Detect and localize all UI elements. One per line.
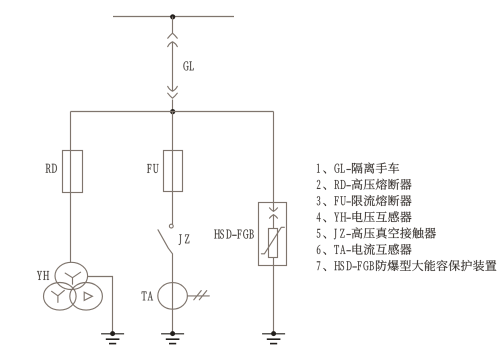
label HSD-FGB — [214, 229, 253, 238]
wire: plug to varistor — [273, 215, 275, 229]
GL upper isolating plug contact (chevron) — [168, 33, 178, 38]
label GL — [183, 61, 193, 70]
wire: GL lower contact to bus node — [172, 100, 174, 112]
voltage transformer YH winding 2 (lower-left circle, wye) — [44, 283, 77, 311]
contactor JZ fixed contact (small circle) — [169, 224, 173, 228]
voltage transformer YH winding 3 (lower-right circle, delta) — [70, 283, 103, 311]
legend line 3 — [317, 195, 412, 206]
contactor JZ moving blade — [158, 230, 173, 254]
fuse FU (rectangle) — [164, 151, 183, 192]
current transformer TA (circle) — [158, 283, 188, 310]
legend line 1 — [317, 163, 399, 174]
wire: middle branch through FU to contactor — [172, 112, 174, 224]
ground: HSD-FGB earth — [262, 331, 285, 344]
ground: YH secondary earth — [101, 331, 124, 344]
wire: YH secondary tap to earth — [88, 277, 113, 334]
wire: incoming busbar — [113, 16, 234, 18]
GL truck stem wire — [172, 42, 174, 91]
ground: TA branch earth — [161, 331, 184, 344]
legend line 7 — [317, 260, 497, 271]
wire: busbar to GL truck upper contact — [172, 17, 174, 34]
legend line 4 — [317, 211, 412, 222]
varistor diagonal stroke — [261, 227, 284, 254]
label YH — [37, 271, 49, 280]
legend line 5 — [317, 227, 436, 239]
voltage transformer YH winding 1 (top circle, wye) — [55, 262, 88, 289]
label JZ — [179, 234, 190, 244]
wire: horizontal distribution bus — [71, 111, 274, 113]
wire: right branch to HSD-FGB — [273, 112, 275, 212]
label RD — [46, 164, 57, 173]
varistor element (rectangle) — [269, 229, 278, 258]
HSD-FGB plug contact (down arrow) — [270, 208, 278, 212]
fuse RD (rectangle) — [63, 151, 83, 193]
label TA — [142, 291, 153, 300]
wire: left branch down to YH — [70, 112, 72, 263]
wire: varistor to earth — [273, 258, 275, 334]
node: T-junction to three branches — [170, 109, 175, 114]
legend line 6 — [317, 244, 412, 255]
TA secondary lead with double slash — [187, 291, 209, 300]
GL lower isolating plug contact (chevron) — [168, 93, 178, 98]
node: busbar tap junction — [170, 14, 175, 19]
HSD-FGB enclosure box — [259, 203, 287, 266]
label FU — [147, 164, 158, 173]
legend line 2 — [317, 179, 412, 190]
HSD-FGB plug contact (up arrow) — [270, 215, 278, 219]
wire: contactor to earth through TA — [172, 254, 174, 334]
GL withdrawable truck arrow (down) — [168, 86, 178, 91]
GL withdrawable truck arrow (up) — [168, 42, 178, 47]
